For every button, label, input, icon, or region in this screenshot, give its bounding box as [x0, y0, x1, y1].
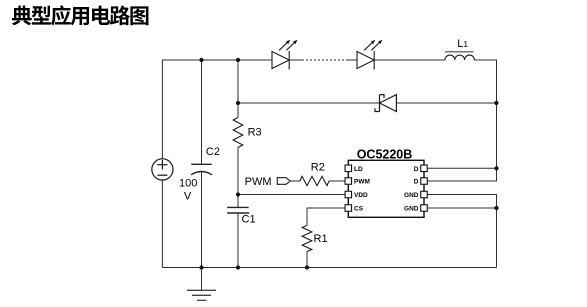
- svg-text:CS: CS: [354, 206, 364, 213]
- IC pin labels: [354, 166, 419, 213]
- wire top rail left segment: [162, 60, 272, 159]
- node VDD / C1: [236, 192, 240, 196]
- resistor R3: [233, 118, 243, 148]
- resistor R2: [300, 176, 329, 185]
- resistor R1: [302, 226, 312, 252]
- svg-text:R2: R2: [311, 161, 325, 173]
- svg-text:PWM: PWM: [245, 176, 272, 188]
- wire C2 branch upper: [201, 60, 203, 164]
- svg-text:V: V: [184, 191, 192, 203]
- svg-text:PWM: PWM: [354, 179, 370, 186]
- wire dash to LED2: [346, 59, 357, 61]
- svg-text:R3: R3: [248, 127, 262, 139]
- svg-text:VDD: VDD: [354, 192, 368, 199]
- wire CS to R1: [307, 208, 345, 226]
- wire dashed LED string: [302, 59, 346, 61]
- capacitor C1: [227, 207, 249, 213]
- svg-text:D: D: [414, 166, 419, 173]
- wire left rail below source: [161, 180, 163, 268]
- wire top rail LED1 to dash: [290, 59, 303, 61]
- IC U1 OC5220B box: [348, 160, 424, 217]
- node D pins: [494, 166, 498, 170]
- svg-text:R1: R1: [314, 233, 328, 245]
- IC pins right: [421, 165, 428, 211]
- wire C1 bottom to rail: [237, 213, 239, 267]
- IC pins left: [345, 165, 352, 211]
- wire PWM tag to R2: [290, 180, 300, 182]
- node diode row right: [494, 101, 498, 105]
- wire C2 branch lower: [201, 172, 203, 268]
- wire R2 to PWM pin: [329, 180, 345, 182]
- node top rail / C2: [199, 58, 203, 62]
- wire D1 pin to right vertical: [427, 167, 496, 169]
- wire diode row left: [238, 102, 380, 104]
- node bottom rail / R1: [305, 265, 309, 269]
- node bottom rail / C1 branch: [236, 265, 240, 269]
- svg-text:LD: LD: [354, 166, 363, 173]
- svg-text:C2: C2: [206, 146, 220, 158]
- wire VDD to R3 branch: [238, 194, 345, 196]
- svg-text:L1: L1: [457, 38, 468, 50]
- wire R3 branch top: [237, 60, 239, 118]
- node GND pins: [494, 206, 498, 210]
- title 典型应用电路图: [12, 5, 148, 25]
- LED D1: [272, 40, 298, 70]
- wire GND2 pin to GND vertical: [427, 207, 496, 209]
- wire GND1 pin right then down: [427, 195, 496, 268]
- inductor L1 core bar: [445, 51, 474, 53]
- schottky diode D3: [375, 95, 396, 112]
- capacitor C2: [191, 164, 212, 175]
- wire diode row right: [396, 102, 496, 104]
- svg-text:GND: GND: [404, 192, 419, 199]
- wire LED2 to L1: [375, 59, 445, 61]
- inductor L1: [445, 55, 474, 60]
- node bottom rail / ground: [199, 265, 203, 269]
- svg-text:OC5220B: OC5220B: [357, 147, 413, 161]
- PWM input tag symbol: [277, 178, 290, 185]
- svg-text:100: 100: [179, 177, 197, 189]
- svg-text:GND: GND: [404, 206, 419, 213]
- svg-text:D: D: [414, 179, 419, 186]
- wire L1 to right corner and down to D2 pin: [427, 60, 496, 181]
- voltage source V1 100V: [152, 159, 173, 180]
- LED D2: [357, 40, 383, 70]
- svg-text:C1: C1: [242, 213, 256, 225]
- wire bottom rail: [162, 267, 496, 269]
- ground: [187, 268, 216, 301]
- node top rail / R3 branch: [236, 58, 240, 62]
- node diode row left: [236, 101, 240, 105]
- wire R1 bottom to rail: [306, 252, 308, 268]
- wire R3 bottom to C1 top: [237, 148, 239, 208]
